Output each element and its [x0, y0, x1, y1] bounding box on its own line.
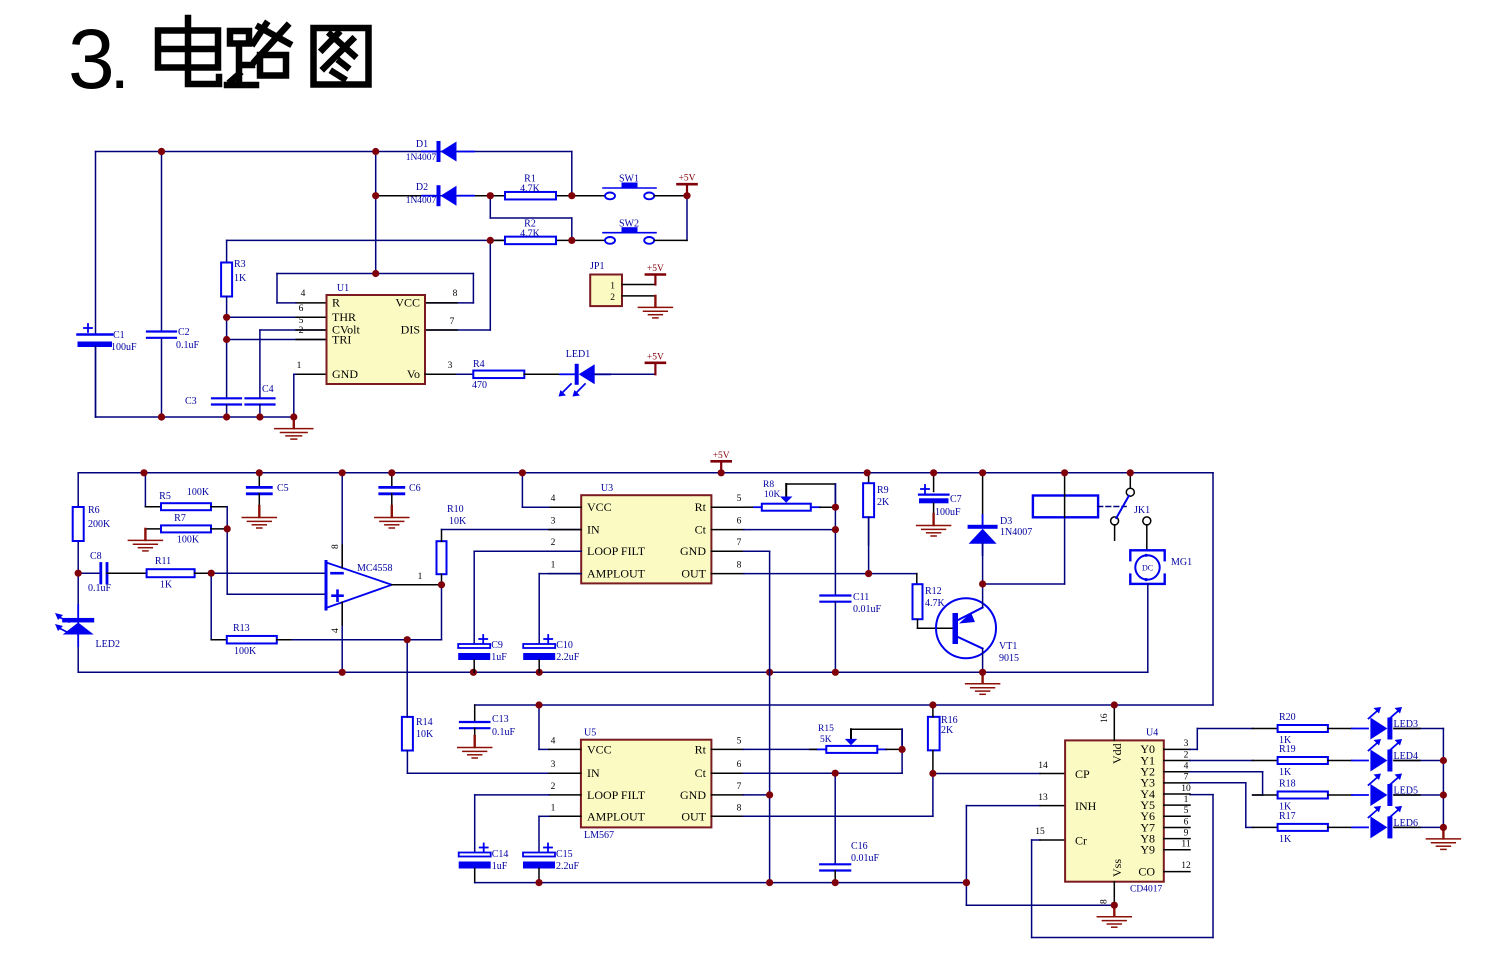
svg-text:100K: 100K [177, 535, 200, 546]
svg-text:C16: C16 [851, 841, 868, 852]
svg-text:1uF: 1uF [492, 861, 508, 872]
svg-text:0.1uF: 0.1uF [492, 727, 516, 738]
svg-text:AMPLOUT: AMPLOUT [587, 567, 646, 581]
svg-text:LOOP FILT: LOOP FILT [587, 788, 646, 802]
svg-text:8: 8 [331, 544, 341, 549]
svg-text:+5V: +5V [647, 264, 664, 274]
svg-text:R14: R14 [416, 717, 433, 728]
svg-text:1uF: 1uF [491, 652, 507, 663]
svg-text:VT1: VT1 [999, 641, 1017, 652]
svg-text:R18: R18 [1279, 779, 1296, 790]
svg-text:4.7K: 4.7K [520, 184, 541, 195]
svg-text:2.2uF: 2.2uF [556, 861, 580, 872]
svg-text:5: 5 [737, 736, 742, 746]
svg-text:5: 5 [737, 494, 742, 504]
svg-text:Vdd: Vdd [1110, 743, 1124, 764]
svg-text:5: 5 [299, 316, 304, 326]
svg-text:C13: C13 [492, 714, 509, 725]
svg-text:D2: D2 [416, 182, 428, 193]
svg-text:2: 2 [299, 326, 304, 336]
svg-text:7: 7 [1184, 773, 1189, 783]
svg-text:11: 11 [1181, 840, 1190, 850]
svg-text:2: 2 [1184, 750, 1189, 760]
svg-text:0.1uF: 0.1uF [176, 340, 200, 351]
svg-text:4: 4 [551, 494, 556, 504]
svg-text:D3: D3 [1000, 516, 1012, 527]
svg-text:2: 2 [551, 538, 556, 548]
svg-text:C10: C10 [556, 640, 573, 651]
svg-text:C7: C7 [950, 494, 962, 505]
svg-text:C1: C1 [113, 330, 125, 341]
svg-text:2.2uF: 2.2uF [556, 652, 580, 663]
svg-text:R4: R4 [473, 359, 485, 370]
svg-text:1: 1 [610, 282, 615, 292]
svg-text:SW1: SW1 [619, 174, 639, 185]
svg-text:9015: 9015 [999, 653, 1019, 664]
svg-text:8: 8 [737, 561, 742, 571]
svg-text:GND: GND [332, 367, 358, 381]
svg-text:6: 6 [737, 760, 742, 770]
svg-text:3: 3 [68, 12, 115, 106]
svg-text:100K: 100K [187, 487, 210, 498]
svg-text:JP1: JP1 [590, 261, 604, 272]
svg-text:15: 15 [1035, 827, 1045, 837]
svg-text:LOOP FILT: LOOP FILT [587, 544, 646, 558]
svg-text:9: 9 [1184, 828, 1189, 838]
svg-text:IN: IN [587, 523, 600, 537]
svg-text:8: 8 [1100, 899, 1110, 904]
svg-text:TRI: TRI [332, 333, 351, 347]
svg-text:LED1: LED1 [566, 349, 590, 360]
svg-text:1: 1 [1184, 795, 1189, 805]
svg-text:LED2: LED2 [96, 639, 120, 650]
svg-text:CD4017: CD4017 [1130, 885, 1162, 895]
svg-text:4.7K: 4.7K [520, 229, 541, 240]
svg-text:+5V: +5V [713, 451, 730, 461]
svg-text:Vss: Vss [1110, 859, 1124, 877]
svg-text:10: 10 [1181, 784, 1191, 794]
svg-text:CP: CP [1075, 767, 1090, 781]
svg-text:R15: R15 [818, 724, 834, 734]
svg-text:2K: 2K [877, 497, 890, 508]
svg-text:3: 3 [1184, 739, 1189, 749]
svg-text:SW2: SW2 [619, 219, 639, 230]
svg-text:1: 1 [297, 361, 302, 371]
svg-text:R5: R5 [159, 491, 171, 502]
svg-text:Y9: Y9 [1140, 843, 1155, 857]
svg-text:3: 3 [448, 361, 453, 371]
svg-text:6: 6 [737, 517, 742, 527]
svg-text:C15: C15 [556, 849, 573, 860]
svg-text:IN: IN [587, 766, 600, 780]
svg-text:R17: R17 [1279, 811, 1296, 822]
svg-text:OUT: OUT [681, 567, 706, 581]
svg-text:C8: C8 [90, 551, 102, 562]
svg-text:R10: R10 [447, 504, 464, 515]
svg-text:4: 4 [301, 289, 306, 299]
svg-text:OUT: OUT [681, 809, 706, 823]
svg-text:13: 13 [1038, 793, 1048, 803]
svg-text:100uF: 100uF [111, 342, 137, 353]
svg-text:7: 7 [737, 782, 742, 792]
svg-text:Rt: Rt [695, 742, 707, 756]
svg-text:C6: C6 [409, 483, 421, 494]
svg-text:R20: R20 [1279, 712, 1296, 723]
svg-text:R8: R8 [763, 480, 774, 490]
svg-text:6: 6 [1184, 817, 1189, 827]
svg-text:VCC: VCC [587, 742, 612, 756]
svg-text:4.7K: 4.7K [925, 598, 946, 609]
svg-text:4: 4 [1184, 762, 1189, 772]
svg-text:AMPLOUT: AMPLOUT [587, 809, 646, 823]
svg-text:4: 4 [331, 628, 341, 633]
svg-text:C9: C9 [491, 640, 503, 651]
svg-text:C4: C4 [262, 384, 274, 395]
svg-text:GND: GND [680, 544, 706, 558]
svg-text:U1: U1 [337, 283, 349, 294]
svg-text:GND: GND [680, 788, 706, 802]
svg-text:MC4558: MC4558 [357, 563, 393, 574]
svg-text:LM567: LM567 [584, 830, 614, 841]
svg-text:R6: R6 [88, 505, 100, 516]
svg-text:+5V: +5V [679, 174, 696, 184]
svg-text:1N4007: 1N4007 [406, 153, 437, 163]
svg-text:12: 12 [1181, 861, 1191, 871]
svg-text:100K: 100K [234, 646, 257, 657]
svg-text:C5: C5 [277, 483, 289, 494]
svg-text:4: 4 [551, 736, 556, 746]
svg-text:R12: R12 [925, 586, 942, 597]
svg-text:3: 3 [551, 517, 556, 527]
svg-text:6: 6 [299, 304, 304, 314]
svg-text:R11: R11 [155, 556, 171, 567]
svg-text:1K: 1K [160, 580, 173, 591]
svg-text:Ct: Ct [695, 523, 707, 537]
svg-text:INH: INH [1075, 799, 1097, 813]
svg-text:5K: 5K [820, 735, 832, 745]
svg-text:7: 7 [450, 317, 455, 327]
svg-text:200K: 200K [88, 519, 111, 530]
svg-text:14: 14 [1038, 761, 1048, 771]
svg-text:1: 1 [551, 803, 556, 813]
svg-text:C14: C14 [492, 849, 509, 860]
svg-text:DIS: DIS [401, 323, 420, 337]
svg-text:U4: U4 [1146, 728, 1158, 739]
svg-text:1K: 1K [234, 273, 247, 284]
svg-text:R13: R13 [233, 623, 250, 634]
svg-text:16: 16 [1100, 713, 1110, 723]
svg-text:.: . [110, 25, 129, 103]
svg-text:10K: 10K [416, 729, 434, 740]
svg-text:JK1: JK1 [1134, 505, 1150, 516]
svg-text:R: R [332, 296, 340, 310]
svg-text:10K: 10K [449, 516, 467, 527]
svg-text:10K: 10K [764, 490, 781, 500]
svg-text:VCC: VCC [587, 500, 612, 514]
svg-text:+5V: +5V [647, 352, 664, 362]
svg-text:1K: 1K [1279, 834, 1292, 845]
svg-text:R19: R19 [1279, 744, 1296, 755]
svg-text:VCC: VCC [395, 296, 420, 310]
svg-text:R7: R7 [174, 513, 186, 524]
svg-text:470: 470 [472, 380, 487, 391]
svg-text:C3: C3 [185, 396, 197, 407]
svg-text:R9: R9 [877, 485, 889, 496]
svg-text:DC: DC [1142, 564, 1153, 573]
svg-text:1K: 1K [1279, 767, 1292, 778]
svg-text:1: 1 [418, 572, 423, 582]
svg-text:D1: D1 [416, 139, 428, 150]
svg-text:5: 5 [1184, 806, 1189, 816]
svg-text:0.1uF: 0.1uF [88, 583, 112, 594]
svg-text:2K: 2K [941, 725, 954, 736]
svg-text:7: 7 [737, 538, 742, 548]
svg-text:C2: C2 [178, 327, 190, 338]
svg-text:3: 3 [551, 760, 556, 770]
svg-text:0.01uF: 0.01uF [853, 604, 882, 615]
svg-text:1N4007: 1N4007 [1000, 527, 1032, 538]
svg-text:8: 8 [737, 803, 742, 813]
svg-text:MG1: MG1 [1171, 557, 1192, 568]
svg-text:Rt: Rt [695, 500, 707, 514]
svg-text:Vo: Vo [407, 367, 420, 381]
svg-text:C11: C11 [853, 592, 869, 603]
svg-text:100uF: 100uF [935, 507, 961, 518]
svg-text:U3: U3 [601, 483, 613, 494]
svg-text:2: 2 [610, 293, 615, 303]
svg-text:Cr: Cr [1075, 834, 1087, 848]
svg-text:R3: R3 [234, 259, 246, 270]
svg-text:1: 1 [551, 561, 556, 571]
svg-text:1N4007: 1N4007 [406, 196, 437, 206]
svg-text:Ct: Ct [695, 766, 707, 780]
svg-text:2: 2 [551, 782, 556, 792]
svg-text:8: 8 [453, 289, 458, 299]
svg-text:0.01uF: 0.01uF [851, 853, 880, 864]
svg-text:U5: U5 [584, 728, 596, 739]
svg-text:CO: CO [1138, 864, 1155, 878]
